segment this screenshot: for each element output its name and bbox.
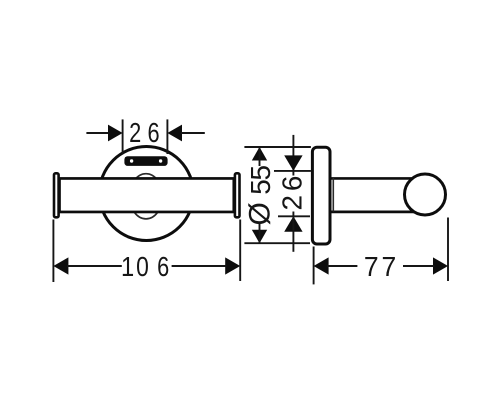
dim 26 side: vertical line mid-top: [292, 171, 294, 176]
dim O55: line bottom segment: [259, 223, 261, 244]
bar right end cap: [235, 173, 240, 217]
dim 26 side: vertical line mid-bottom: [292, 212, 294, 217]
svg-text:6: 6: [157, 252, 169, 283]
dim 77: line right segment: [403, 265, 434, 267]
towel bar body (front view): [60, 178, 234, 212]
dim O55: bottom arrow: [252, 230, 267, 244]
wall plate (side view): [312, 147, 330, 244]
svg-text:Ø: Ø: [244, 202, 277, 225]
dim 106: left arrow: [53, 257, 68, 274]
dim 77: right arrow: [433, 257, 448, 274]
dim 26 side: vertical line top: [292, 135, 294, 171]
dim 106: left extension line: [52, 220, 54, 283]
collar face line (side view): [332, 178, 334, 212]
dim 26 side: top tick line: [274, 170, 311, 172]
dim O55: top tick line: [244, 146, 311, 148]
dim O55: bottom tick line: [244, 242, 310, 244]
bar left end cap: [54, 173, 59, 217]
dim 26 top: left extension line: [122, 119, 124, 154]
dim O55: top arrow: [252, 147, 267, 161]
dim 106: line right segment: [172, 265, 227, 267]
dim 77: left arrow: [314, 257, 329, 274]
dim 26 side: bottom arrow: [284, 216, 302, 232]
wall plate circle (front view): [99, 147, 193, 241]
svg-text:6: 6: [148, 117, 160, 148]
svg-text:7: 7: [382, 250, 397, 282]
dim 26 side: top arrow: [284, 155, 302, 171]
collar ellipse (front view): [130, 174, 163, 219]
dim 106: right arrow: [225, 257, 240, 274]
dim 26 side: vertical line bottom: [292, 216, 294, 252]
svg-text:5: 5: [245, 179, 276, 195]
dim 77: left extension line: [313, 247, 315, 285]
dim 26 top: right extension line: [166, 119, 168, 154]
dim 77: line left segment: [327, 265, 357, 267]
svg-text:2: 2: [129, 117, 141, 148]
dim O55: line top segment: [259, 147, 261, 166]
knob ball (side view): [405, 174, 446, 215]
mounting bracket (black, top of plate): [124, 156, 167, 166]
dim 77: right extension line: [447, 218, 449, 282]
svg-text:2: 2: [276, 195, 307, 211]
dim 26 top: right leader line: [181, 132, 205, 134]
svg-text:1: 1: [121, 252, 134, 282]
dim 106: right extension line: [239, 220, 241, 282]
svg-text:6: 6: [276, 176, 307, 192]
dim 26 top: left arrow: [108, 125, 123, 142]
dim 26 top: right arrow: [167, 125, 182, 142]
svg-text:0: 0: [136, 252, 149, 283]
svg-text:7: 7: [364, 250, 379, 282]
svg-text:5: 5: [245, 165, 276, 181]
dim 106: line left segment: [67, 265, 122, 267]
arm (side view): [332, 177, 416, 213]
dim 26 top: left leader line: [86, 132, 109, 134]
dim 26 side: bottom tick line: [278, 215, 310, 217]
